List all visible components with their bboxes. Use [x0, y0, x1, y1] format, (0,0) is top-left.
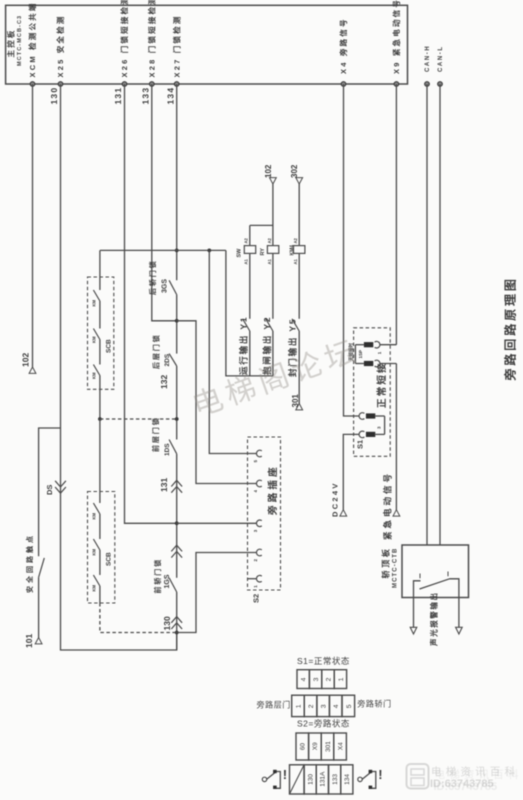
svg-text:1GS: 1GS	[164, 574, 171, 588]
svg-text:X9 紧急电动信号: X9 紧急电动信号	[391, 0, 401, 74]
svg-text:131A: 131A	[320, 771, 327, 787]
svg-text:4: 4	[333, 704, 340, 708]
svg-text:KM: KM	[92, 584, 97, 591]
svg-text:轿顶板: 轿顶板	[381, 546, 391, 578]
svg-text:后轿门锁: 后轿门锁	[148, 259, 157, 295]
svg-text:SCB: SCB	[106, 339, 113, 353]
svg-text:DS: DS	[45, 485, 54, 495]
svg-text:S1: S1	[356, 440, 365, 449]
svg-text:KM: KM	[92, 512, 97, 519]
svg-text:131: 131	[159, 478, 169, 492]
svg-text:RY: RY	[260, 248, 266, 256]
svg-text:2DS: 2DS	[164, 353, 171, 366]
svg-text:KM: KM	[92, 336, 97, 343]
svg-text:主控板: 主控板	[6, 28, 16, 57]
svg-text:101: 101	[24, 634, 34, 648]
svg-text:ID:63743785: ID:63743785	[434, 781, 498, 793]
svg-text:X27 门锁检测: X27 门锁检测	[171, 14, 181, 77]
svg-text:X25 安全检测: X25 安全检测	[55, 14, 65, 77]
svg-text:后层门锁: 后层门锁	[152, 333, 161, 369]
svg-text:前轿门锁: 前轿门锁	[153, 558, 162, 594]
svg-text:301: 301	[325, 741, 332, 752]
svg-text:102: 102	[21, 353, 31, 367]
svg-text:KM: KM	[92, 299, 97, 306]
svg-text:X28 门锁短接检测: X28 门锁短接检测	[147, 0, 157, 78]
svg-text:SW: SW	[236, 248, 242, 258]
svg-text:4: 4	[301, 677, 308, 681]
svg-text:KM4: KM4	[290, 245, 296, 256]
svg-text:X4 旁路信号: X4 旁路信号	[338, 17, 348, 74]
svg-text:A1: A1	[244, 258, 249, 264]
svg-text:CAN-L: CAN-L	[438, 45, 444, 72]
svg-text:DC24V: DC24V	[331, 481, 340, 517]
svg-text:运行输出 Y1: 运行输出 Y1	[238, 316, 248, 375]
svg-text:60: 60	[300, 743, 307, 751]
svg-text:X26 门锁短接检测: X26 门锁短接检测	[119, 0, 129, 78]
svg-text:KM: KM	[92, 548, 97, 555]
svg-text:紧急电动信号: 紧急电动信号	[383, 471, 393, 540]
svg-text:131: 131	[113, 87, 123, 105]
svg-text:134: 134	[165, 87, 175, 105]
svg-text:MCTC-CTB: MCTC-CTB	[392, 548, 398, 588]
svg-text:A2: A2	[244, 237, 249, 243]
svg-text:正常短接: 正常短接	[376, 361, 388, 408]
svg-text:2: 2	[325, 677, 332, 681]
svg-text:旁路轿门: 旁路轿门	[357, 699, 391, 709]
svg-text:130: 130	[49, 87, 59, 105]
svg-text:S1=正常状态: S1=正常状态	[297, 656, 350, 666]
svg-text:声光报警输出: 声光报警输出	[429, 591, 439, 647]
svg-text:XCM 检测公共端: XCM 检测公共端	[27, 1, 37, 77]
svg-text:A1: A1	[267, 258, 272, 264]
svg-text:电梯资讯百科: 电梯资讯百科	[435, 768, 523, 781]
svg-text:旁路插座: 旁路插座	[267, 464, 279, 516]
svg-text:X9: X9	[312, 742, 319, 750]
svg-text:1: 1	[338, 677, 345, 681]
svg-text:3GS: 3GS	[161, 279, 168, 293]
svg-text:X4: X4	[337, 742, 344, 750]
svg-text:3: 3	[321, 704, 328, 708]
svg-text:S2: S2	[252, 594, 261, 603]
svg-text:前层门锁: 前层门锁	[151, 416, 160, 452]
svg-text:旁路回路原理图: 旁路回路原理图	[502, 276, 517, 381]
svg-text:A1: A1	[293, 258, 298, 264]
svg-text:302: 302	[290, 164, 299, 178]
svg-text:130: 130	[308, 774, 315, 785]
svg-text:133: 133	[332, 774, 339, 785]
svg-text:!: !	[378, 767, 382, 782]
svg-text:301: 301	[291, 394, 300, 408]
svg-text:102: 102	[264, 164, 273, 178]
svg-text:133: 133	[140, 87, 150, 105]
svg-text:1DS: 1DS	[164, 443, 171, 456]
svg-text:2: 2	[308, 704, 315, 708]
svg-text:MCTC-MCB-C3: MCTC-MCB-C3	[17, 15, 23, 66]
svg-text:旁路层门: 旁路层门	[257, 700, 291, 710]
svg-text:S2=旁路状态: S2=旁路状态	[297, 719, 350, 729]
svg-text:132: 132	[159, 375, 169, 389]
svg-text:!: !	[283, 767, 287, 782]
svg-text:3: 3	[313, 677, 320, 681]
svg-text:A2: A2	[293, 237, 298, 243]
svg-text:134: 134	[344, 774, 351, 785]
svg-text:A2: A2	[267, 237, 272, 243]
svg-text:1: 1	[295, 704, 302, 708]
svg-text:CAN-H: CAN-H	[425, 45, 431, 72]
svg-text:SCB: SCB	[106, 552, 113, 566]
svg-text:KM: KM	[92, 372, 97, 379]
svg-text:130: 130	[162, 616, 172, 630]
svg-text:安全回路触点: 安全回路触点	[25, 533, 34, 593]
svg-text:5: 5	[346, 704, 353, 708]
